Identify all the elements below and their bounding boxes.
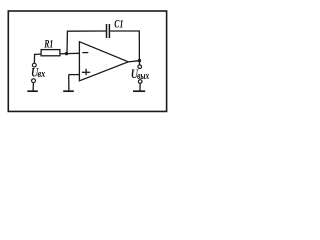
wire output stub [138,61,140,65]
svg-text:C1: C1 [114,18,123,31]
op-amp minus sign [82,52,88,54]
svg-text:вых: вых [137,70,149,82]
op-amp U1 triangle [79,42,128,81]
ground op-amp plus input [63,90,74,92]
label Uвх [31,66,39,79]
wire plus-input ground vertical [68,75,70,91]
wire op-amp output [128,61,139,62]
wire feedback right vertical [138,31,140,61]
ground input [27,90,38,92]
svg-text:вх: вх [38,69,46,80]
label R1 [43,38,53,51]
ground output [133,90,145,92]
wire feedback left vertical [66,32,68,54]
node output lower circle [138,80,142,84]
label C1 [114,18,123,31]
wire input terminal stub [33,54,35,63]
wire to output ground [139,83,141,91]
wire feedback top right segment [110,30,140,32]
wire node A to op-amp [67,52,80,54]
node input terminal circle [32,63,36,67]
node output junction dot [138,59,141,62]
wire input lead to R1 [34,53,41,56]
wire R1 to node A [60,53,67,55]
node output terminal circle [138,65,142,69]
svg-text:R1: R1 [43,38,53,51]
capacitor C1 [106,24,108,38]
label Uвых [131,68,139,81]
node source lower circle [32,79,36,83]
resistor R1 [41,50,60,56]
op-amp plus sign [82,71,90,73]
wire non-inverting input [69,74,80,76]
node A junction dot [65,52,68,55]
wire feedback top left segment [67,30,106,32]
wire to input ground [32,83,34,91]
